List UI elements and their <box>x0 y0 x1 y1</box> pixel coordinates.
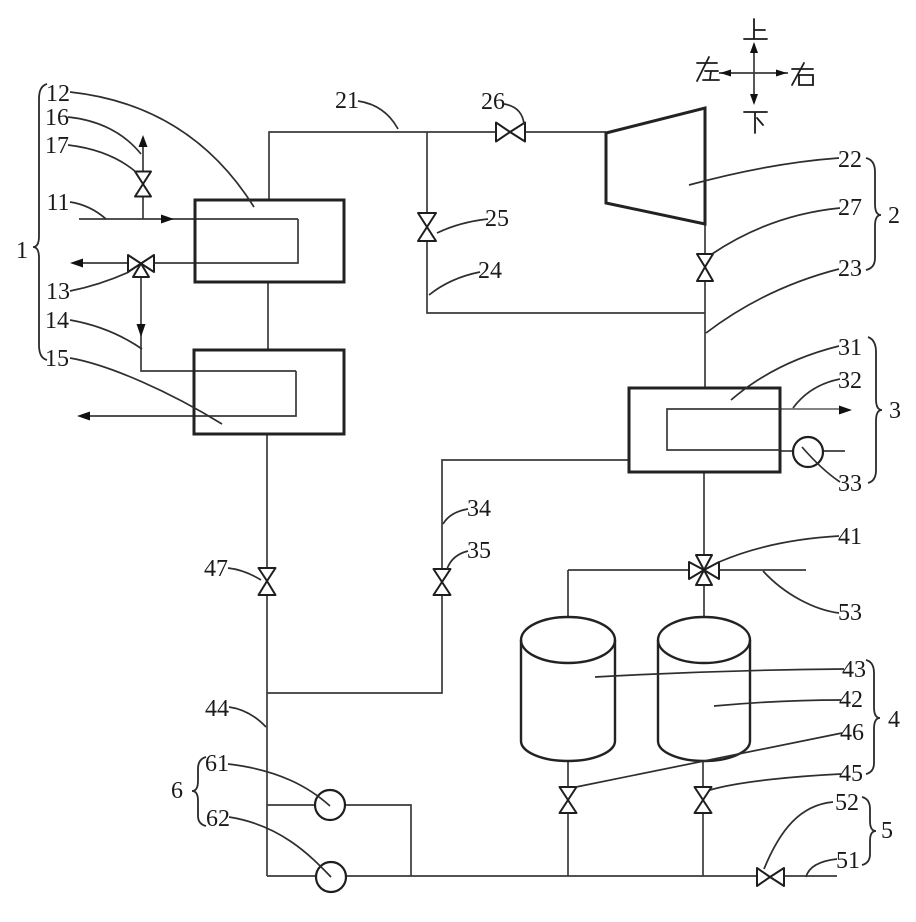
svg-text:14: 14 <box>45 308 69 334</box>
svg-text:61: 61 <box>205 751 229 777</box>
svg-text:21: 21 <box>335 88 359 114</box>
svg-text:4: 4 <box>888 707 900 733</box>
svg-text:42: 42 <box>839 687 863 713</box>
svg-text:3: 3 <box>889 398 901 424</box>
svg-text:53: 53 <box>838 600 862 626</box>
svg-text:2: 2 <box>888 203 900 229</box>
svg-text:41: 41 <box>838 524 862 550</box>
svg-text:23: 23 <box>838 256 862 282</box>
svg-text:24: 24 <box>478 258 502 284</box>
svg-text:51: 51 <box>836 848 860 874</box>
svg-text:46: 46 <box>840 720 864 746</box>
svg-text:43: 43 <box>842 657 866 683</box>
svg-text:26: 26 <box>481 89 505 115</box>
svg-text:32: 32 <box>838 368 862 394</box>
svg-text:16: 16 <box>45 105 69 131</box>
svg-text:5: 5 <box>881 818 893 844</box>
svg-text:44: 44 <box>205 696 229 722</box>
svg-text:31: 31 <box>838 335 862 361</box>
svg-text:1: 1 <box>16 238 28 264</box>
svg-text:6: 6 <box>171 778 183 804</box>
svg-text:17: 17 <box>45 133 69 159</box>
svg-text:25: 25 <box>485 206 509 232</box>
svg-text:13: 13 <box>46 279 70 305</box>
svg-text:33: 33 <box>838 471 862 497</box>
svg-text:34: 34 <box>467 496 491 522</box>
svg-text:47: 47 <box>204 556 228 582</box>
svg-text:11: 11 <box>46 190 69 216</box>
svg-text:52: 52 <box>835 790 859 816</box>
svg-text:15: 15 <box>45 346 69 372</box>
svg-text:22: 22 <box>838 147 862 173</box>
svg-text:62: 62 <box>206 806 230 832</box>
svg-text:45: 45 <box>839 761 863 787</box>
svg-text:12: 12 <box>46 81 70 107</box>
svg-text:27: 27 <box>838 195 862 221</box>
svg-text:35: 35 <box>467 538 491 564</box>
